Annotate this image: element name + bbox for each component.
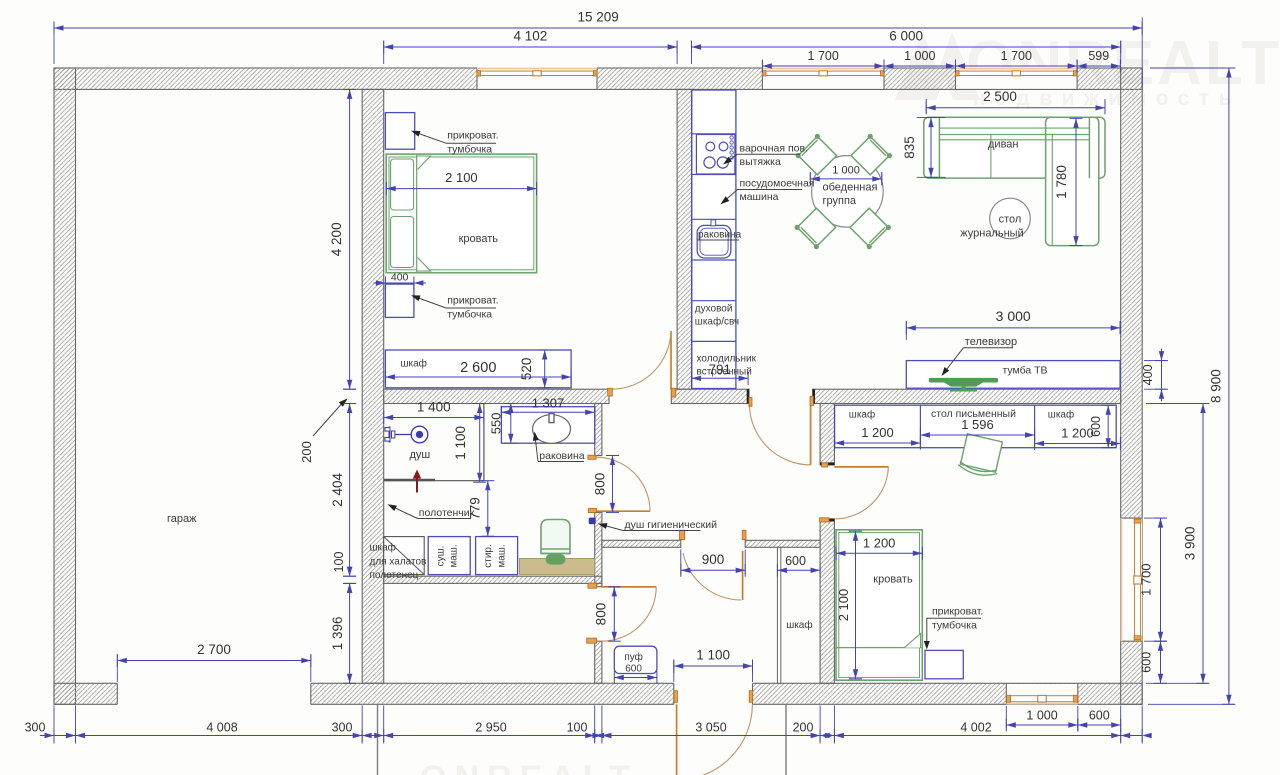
svg-text:полотенчик: полотенчик [419,507,475,519]
svg-text:900: 900 [702,552,725,567]
bed bedroom2 [836,530,922,680]
svg-text:4 008: 4 008 [206,721,237,735]
svg-text:2 404: 2 404 [330,472,345,506]
bathroom right wall upper [595,404,602,456]
svg-text:4 102: 4 102 [514,29,548,44]
dim 1000 dining [810,178,882,180]
svg-text:300: 300 [332,721,353,735]
svg-text:обеденная: обеденная [823,182,878,194]
svg-text:600: 600 [785,554,806,568]
wardrobe bedroom1 [385,350,571,388]
svg-text:машина: машина [740,191,779,203]
wall under kitchen column [671,389,749,403]
dim 6000 [692,46,1121,48]
nightstand 2 [385,284,414,317]
svg-text:полотенец: полотенец [370,570,419,581]
dim 1100 entrance [674,665,753,667]
dim 2600 wardrobe [385,376,571,378]
svg-text:1 100: 1 100 [453,426,468,460]
window bedroom1 top [477,67,597,89]
svg-text:душ гигиенический: душ гигиенический [625,519,718,531]
svg-text:800: 800 [594,603,609,626]
svg-text:недвижимость: недвижимость [700,769,968,775]
svg-text:835: 835 [902,136,917,159]
svg-text:1 700: 1 700 [1139,563,1154,596]
svg-text:стир.: стир. [483,544,494,568]
dim 600 pouf [614,677,657,679]
svg-text:тумбочка: тумбочка [447,144,492,156]
svg-text:1 200: 1 200 [863,536,896,551]
robe closet [384,537,425,575]
svg-text:посудомоечная: посудомоечная [740,178,815,190]
dim 3000 tv [906,327,1120,329]
dining chairs [798,136,836,174]
dim 1400 shower [384,417,484,419]
bathroom bottom wall [384,576,602,583]
dim 3900 [1202,404,1204,684]
svg-text:599: 599 [1088,49,1109,63]
toilet [541,520,570,554]
svg-text:4 002: 4 002 [960,721,991,735]
svg-text:300: 300 [25,721,46,735]
svg-text:600: 600 [1089,709,1110,723]
shower head symbol [385,426,428,443]
door wc lower 800 [602,586,656,588]
svg-text:кровать: кровать [873,573,913,585]
tv stand [906,361,1120,389]
svg-text:200: 200 [793,721,814,735]
bedroom1 right wall [677,89,691,389]
bathroom right wall middle [595,512,602,586]
entrance door opening 1100 [674,683,753,706]
bed bedroom1 [386,154,536,273]
svg-text:1 307: 1 307 [532,396,565,411]
nightstand bedroom2 [925,650,963,678]
svg-text:прикроват.: прикроват. [932,606,983,618]
door bedroom2 [834,466,888,468]
outer top wall [54,68,1142,89]
dim 1396 [349,583,351,683]
svg-text:душ: душ [410,449,431,461]
dim 8900 [1228,68,1230,704]
window kitchen top 1700 [762,67,884,89]
svg-text:встроенный: встроенный [697,366,752,377]
svg-text:2 600: 2 600 [460,360,496,376]
svg-text:100: 100 [332,552,346,573]
bathroom sink counter [501,407,594,444]
svg-text:1 000: 1 000 [1026,709,1057,723]
outer left wall [54,68,76,704]
kitchen sink [697,225,731,258]
dim 400 nightstand2 [373,282,426,284]
pouf [614,646,657,673]
svg-text:шкаф: шкаф [370,542,396,554]
closet right wall lower [820,519,834,683]
bedroom2 wardrobe-desk row [835,405,1117,448]
dryer [428,537,470,575]
entrance door [676,704,678,775]
desk chair [957,433,1004,478]
door bathroom [596,510,650,512]
svg-text:1 000: 1 000 [832,165,860,177]
svg-text:2 950: 2 950 [475,721,506,735]
corridor divider wall right [745,540,820,547]
dim 4200 [349,89,351,389]
svg-text:3 000: 3 000 [996,308,1031,324]
bathroom sink [533,415,571,444]
svg-text:2 100: 2 100 [836,589,851,622]
wall under living room / bedroom2 top wall [813,389,1121,403]
svg-text:шкаф: шкаф [1048,409,1074,421]
dim 520 wardrobe [544,350,546,388]
svg-text:3 900: 3 900 [1183,527,1198,561]
svg-text:600: 600 [625,663,642,674]
svg-text:телевизор: телевизор [965,336,1017,348]
svg-text:маш.: маш. [449,544,460,567]
dim 800 bath door [612,456,614,513]
dim 4102 [384,46,677,48]
door hall 900 [742,551,744,600]
window bedroom2 right 1700 [1121,518,1143,641]
outer bottom wall [54,683,1142,704]
svg-text:стол письменный: стол письменный [931,408,1016,420]
svg-text:духовой: духовой [695,303,733,314]
dim 600 right [1160,641,1162,683]
hob [696,135,735,175]
dim 900 hall door [681,569,745,571]
svg-text:600: 600 [1140,652,1154,673]
svg-text:маш.: маш. [497,544,508,567]
svg-text:тумбочка: тумбочка [932,619,977,631]
svg-text:шкаф: шкаф [401,357,427,369]
svg-text:1 700: 1 700 [808,49,839,63]
dim 550 [510,404,512,444]
svg-text:раковина: раковина [698,230,742,241]
kitchen appliance column [692,90,736,389]
svg-text:журнальный: журнальный [960,228,1023,240]
svg-text:1 396: 1 396 [330,616,345,650]
svg-text:1 780: 1 780 [1054,165,1069,199]
svg-text:1 400: 1 400 [417,400,451,415]
svg-text:8 900: 8 900 [1209,369,1224,403]
window living top 1700 [956,67,1078,89]
sofa [924,117,1105,245]
svg-text:для халатов: для халатов [370,556,427,567]
svg-text:прикроват.: прикроват. [447,295,498,307]
dim 2404 [349,404,351,577]
washer [476,537,518,575]
dim 400 tv stand [1161,349,1163,402]
dim 1700 window right [1160,518,1162,641]
svg-text:тумба ТВ: тумба ТВ [1002,364,1047,376]
svg-text:холодильник: холодильник [697,354,757,365]
dim 200 wall ticks [343,388,356,390]
svg-text:600: 600 [1089,416,1103,437]
outer right wall [1121,68,1143,704]
shower red arrow [416,477,418,493]
dims bottom row [40,735,1142,737]
svg-text:пуф: пуф [624,651,643,663]
svg-text:100: 100 [567,721,588,735]
corridor divider wall left [602,540,681,547]
svg-text:прикроват.: прикроват. [447,130,498,142]
svg-text:варочная пов.: варочная пов. [740,143,808,155]
svg-text:15 209: 15 209 [577,10,618,25]
svg-text:2 100: 2 100 [445,170,478,185]
dim 2700 garage door [117,660,310,662]
svg-text:520: 520 [519,358,534,381]
dim 800 wc door [613,587,615,641]
garage right wall [362,89,384,683]
svg-text:суш.: суш. [436,546,447,567]
tv [929,378,998,383]
svg-text:диван: диван [988,139,1018,151]
svg-text:1 200: 1 200 [861,425,894,440]
svg-text:2 700: 2 700 [197,642,231,657]
window bedroom2 bottom 1000 [1006,684,1078,704]
svg-text:200: 200 [299,441,314,463]
dim 835 sofa [930,118,932,178]
dim 791 [692,377,749,379]
dims bedroom2 row [835,442,921,444]
door kitchen [810,404,812,465]
dim 2100 bed2 [855,531,857,679]
watermark [420,29,1280,775]
closet left thin wall [777,547,780,683]
garage door opening 2700 [117,683,310,706]
wall end caps [747,389,749,403]
svg-text:вытяжка: вытяжка [740,156,781,168]
dim 2500 sofa [926,107,1105,109]
svg-text:шкаф: шкаф [849,409,875,421]
dim 1307 [501,411,595,413]
svg-text:ONREALT: ONREALT [420,759,638,775]
page artifact lines [377,705,379,775]
dim 1200 bed2 [836,552,922,554]
svg-text:1 000: 1 000 [904,49,935,63]
svg-text:3 050: 3 050 [695,721,726,735]
coffee table [990,198,1031,239]
bathroom right wall lower [595,641,602,683]
svg-text:1 100: 1 100 [696,648,730,663]
svg-text:группа: группа [823,195,857,207]
svg-text:раковина: раковина [539,450,584,462]
closet right wall upper [820,404,834,465]
hygienic shower [589,518,596,525]
svg-text:1 700: 1 700 [1001,49,1032,63]
svg-text:шкаф: шкаф [786,619,812,631]
svg-text:стол: стол [999,213,1022,225]
svg-text:кровать: кровать [459,233,499,245]
wall between bedroom1 and corridor [384,389,609,403]
dim 15209 [54,27,1142,29]
shower enclosure [384,480,484,482]
svg-text:шкаф/свч: шкаф/свч [695,315,739,327]
dim 779 [487,481,489,537]
dim 1100 shower [479,404,481,483]
dim 100 [343,575,356,577]
bath mat [520,559,595,575]
dim 600 closet [777,569,820,571]
dim 2100 bed1 [386,188,536,190]
svg-text:4 200: 4 200 [329,222,344,256]
dining table [812,156,884,228]
svg-text:гараж: гараж [167,513,197,525]
dims windows top [762,65,884,67]
dim 1000/600 bottom right [1006,724,1078,726]
svg-text:400: 400 [391,272,409,284]
svg-text:6 000: 6 000 [889,29,923,44]
svg-text:400: 400 [1141,364,1155,385]
svg-text:2 500: 2 500 [983,89,1017,104]
svg-text:тумбочка: тумбочка [447,308,492,320]
door bedroom1 [670,331,672,389]
nightstand 1 [385,113,414,150]
dim 1780 sofa [1075,118,1077,245]
svg-text:800: 800 [593,473,608,496]
